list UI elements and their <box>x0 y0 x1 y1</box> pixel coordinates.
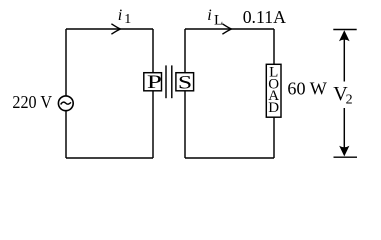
transformer core bars <box>166 65 172 98</box>
svg-text:220 V: 220 V <box>12 92 52 112</box>
svg-text:0.11A: 0.11A <box>243 7 286 27</box>
wire: right loop top <box>185 28 274 30</box>
load box <box>266 64 281 117</box>
V2 dimension top bar <box>333 29 356 31</box>
transformer primary box P <box>144 73 162 91</box>
svg-text:S: S <box>178 72 192 93</box>
wire: right loop bottom <box>185 157 274 159</box>
svg-text:i: i <box>118 7 122 24</box>
wire: left loop bottom <box>66 157 153 159</box>
wire: left loop top <box>66 28 153 30</box>
V2 dimension bottom bar <box>334 156 358 158</box>
arrow head iL <box>222 24 231 34</box>
svg-text:2: 2 <box>346 93 353 108</box>
wire: right loop left lower <box>184 91 186 158</box>
wire: right loop right lower <box>273 117 275 158</box>
svg-text:1: 1 <box>124 12 131 27</box>
V2 dimension upper line <box>343 36 345 82</box>
V2 down arrowhead <box>339 146 349 157</box>
svg-text:i: i <box>207 7 211 24</box>
wire: left loop right lower <box>152 91 154 158</box>
wire: left loop left lower <box>65 111 67 158</box>
transformer secondary box S <box>176 73 194 91</box>
wire: left loop left upper <box>65 29 67 96</box>
wire: right loop left upper <box>184 29 186 73</box>
AC source (220 V) <box>58 96 73 111</box>
svg-text:L: L <box>214 13 223 29</box>
svg-text:60 W: 60 W <box>287 78 326 98</box>
arrow head i1 <box>111 24 120 34</box>
V2 dimension lower line <box>343 108 345 151</box>
V2 up arrowhead <box>339 30 350 41</box>
label LOAD <box>268 65 279 116</box>
wire: left loop right upper <box>152 29 154 73</box>
wire: right loop right upper <box>273 29 275 64</box>
svg-text:P: P <box>147 72 162 93</box>
svg-text:D: D <box>268 100 279 116</box>
